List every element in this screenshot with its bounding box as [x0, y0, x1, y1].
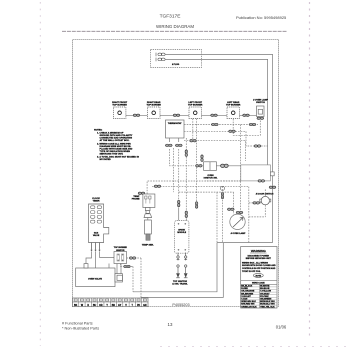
bus y192.1 — [179, 191, 234, 193]
bus y181 to probe — [147, 181, 241, 194]
svg-text:LEFT REAR: LEFT REAR — [227, 101, 240, 104]
oven lamp switch box — [257, 106, 265, 117]
connector on control bottom wire — [258, 180, 265, 183]
svg-text:AT THE WALL OUTLET BOX.: AT THE WALL OUTLET BOX. — [100, 139, 130, 142]
svg-text:TIMER: TIMER — [93, 201, 100, 203]
upper dashed bus y126 — [184, 124, 258, 126]
connector y150.5 — [254, 145, 261, 148]
svg-text:Y/BK-YEL BLK: Y/BK-YEL BLK — [260, 306, 275, 308]
svg-text:CONTROLS IN OFF POSITION A: CONTROLS IN OFF POSITION AND — [242, 267, 276, 270]
power cord wire N — [165, 59, 268, 170]
connector left of door switch — [253, 202, 260, 205]
svg-text:P4055203: P4055203 — [172, 303, 189, 307]
svg-text:TOP BURNER: TOP BURNER — [147, 104, 162, 106]
valve pins up — [108, 264, 110, 269]
svg-text:OVEN VALVE: OVEN VALVE — [88, 277, 102, 280]
wire oven lamp feed vertical — [236, 211, 243, 214]
oven valve box — [76, 268, 115, 287]
connector on mid bus left — [154, 185, 161, 188]
connector right of ignitor — [129, 257, 136, 260]
wire box3 long down — [196, 119, 198, 208]
power cord plug symbol line 2 — [156, 58, 165, 62]
oven lamp circle — [230, 214, 245, 229]
wire with connector C — [185, 138, 187, 210]
connector D — [189, 139, 196, 142]
svg-text:VALVE: VALVE — [93, 234, 100, 237]
probe flare bracket — [144, 214, 152, 218]
svg-text:# DOOR SWITCH: # DOOR SWITCH — [256, 193, 274, 195]
main diagram border — [73, 40, 279, 307]
svg-text:SPARK: SPARK — [178, 229, 185, 232]
power cord wire L1 — [165, 54, 273, 242]
wire control to door sw area — [249, 202, 261, 204]
connector above ignitor switch — [201, 155, 204, 162]
warning and wire code table — [241, 247, 277, 309]
svg-text:NOTE: NOTE — [256, 275, 262, 277]
clock slots — [91, 206, 102, 223]
power cord box — [151, 50, 202, 68]
wire thermostat aux down — [173, 148, 175, 192]
svg-text:13: 13 — [168, 322, 173, 327]
oven control tab — [270, 172, 274, 176]
svg-text:SWITCH: SWITCH — [256, 102, 265, 104]
connector C — [185, 150, 188, 157]
svg-text:SERVICING THIS UNIT.: SERVICING THIS UNIT. — [100, 153, 124, 155]
wire thermostat to spark module — [178, 149, 180, 200]
NOTES text block — [94, 129, 140, 161]
svg-text:BK-BLACK: BK-BLACK — [241, 285, 252, 288]
svg-text:# OVEN LAMP: # OVEN LAMP — [253, 99, 268, 102]
wire into ignitor switch top — [201, 155, 203, 162]
connector 3 — [210, 114, 217, 117]
temp probe receptacle — [143, 194, 155, 208]
oven lamp leads — [233, 192, 235, 214]
connector on bus y126 left — [211, 123, 218, 126]
connector below ignitor — [123, 265, 130, 268]
svg-text:TOP BURNER: TOP BURNER — [226, 104, 241, 106]
svg-text:01/06: 01/06 — [276, 325, 287, 330]
clock body — [89, 204, 109, 243]
svg-text:SHOWN WITH DOOR CLOSED AND: SHOWN WITH DOOR CLOSED AND — [242, 264, 276, 267]
svg-text:T-TAN: T-TAN — [241, 298, 247, 301]
burner switch box 4 — [227, 107, 240, 119]
svg-text:& IGN. TRANS.: & IGN. TRANS. — [172, 282, 188, 285]
wire ignitor switch to control — [216, 165, 240, 167]
svg-text:BR: BR — [112, 305, 116, 307]
svg-text:GY-GRAY: GY-GRAY — [260, 292, 270, 295]
svg-text:TOP BURNER: TOP BURNER — [112, 104, 127, 106]
title underline dashed — [62, 30, 287, 32]
bus y140.7 — [184, 141, 246, 161]
connector at probe receptacle top — [138, 192, 145, 195]
wire control box bottom — [205, 180, 241, 182]
connector on bus y131.3 — [228, 130, 235, 133]
wire door switch top — [264, 189, 266, 196]
svg-text:RIGHT REAR: RIGHT REAR — [147, 101, 161, 104]
terminal strip — [73, 298, 149, 307]
connector on wire x196 — [195, 201, 198, 208]
svg-text:PK: PK — [137, 305, 141, 307]
svg-text:TGF317E: TGF317E — [160, 14, 181, 20]
bottom page artifact dashes — [160, 346, 350, 348]
oven valve tab — [115, 274, 122, 282]
wire to ignitor switch — [170, 149, 194, 166]
svg-text:THERMOSTAT: THERMOSTAT — [168, 122, 182, 125]
svg-text:BK: BK — [74, 305, 78, 307]
electrode terminals below module — [177, 253, 188, 261]
connector right of ignitor switch (dark) — [221, 164, 229, 167]
thermostat connector B — [175, 144, 182, 147]
wire box4-lamp switch — [240, 114, 257, 116]
wire lamp right — [249, 216, 265, 218]
connector on bus y126 right — [249, 123, 256, 126]
svg-text:GY: GY — [118, 305, 122, 307]
mid bus y185.4 — [152, 186, 249, 242]
connector 2 — [173, 114, 180, 117]
svg-text:MODULE: MODULE — [177, 232, 186, 234]
right lower wire corners — [217, 242, 273, 244]
svg-text:IGNITOR SW.: IGNITOR SW. — [204, 178, 218, 180]
connector left of ignitor switch — [195, 165, 202, 168]
page edge dashed vertical line right — [309, 2, 311, 340]
wire x217 down — [216, 192, 218, 243]
svg-text:Publication No: 5995498925: Publication No: 5995498925 — [236, 15, 287, 20]
dashed bus y131.3 — [184, 131, 268, 146]
thermostat connector A — [165, 144, 172, 147]
connector below receptacle — [145, 208, 150, 211]
spark electrode right — [184, 265, 188, 278]
clock pins — [92, 243, 100, 251]
wire to bottom loop left — [132, 267, 134, 292]
wire box2-box3 — [160, 114, 189, 116]
svg-text:BU: BU — [93, 305, 97, 307]
wire door switch down — [264, 205, 266, 217]
power cord plug symbol line 1 — [156, 53, 165, 57]
svg-text:OR: OR — [99, 305, 103, 307]
door switch circle — [261, 196, 269, 204]
svg-text:PROBE: PROBE — [132, 199, 140, 201]
spark electrode left — [176, 265, 180, 278]
svg-text:OR/BK-OR BLK: OR/BK-OR BLK — [241, 306, 257, 308]
svg-text:WARNING: WARNING — [251, 249, 267, 253]
connector 4 — [242, 114, 249, 117]
oven control box — [241, 165, 271, 181]
spark module box — [175, 221, 189, 254]
temp sensor body — [144, 220, 151, 234]
clock pin wires — [86, 252, 92, 264]
burner switch box 2 — [148, 107, 161, 119]
top burner ignitor box — [114, 252, 127, 264]
connector on power wire y187 — [269, 186, 276, 189]
burner switch labels row — [112, 99, 268, 107]
svg-text:WIRING BOX - ALL WIRING: WIRING BOX - ALL WIRING — [242, 261, 268, 264]
svg-text:NOTES:: NOTES: — [94, 129, 103, 131]
wire down to bottom loop — [140, 258, 142, 297]
svg-text:OR-ORANGE: OR-ORANGE — [241, 290, 255, 293]
svg-text:GN: GN — [143, 305, 147, 307]
svg-text:# OVEN LAMP: # OVEN LAMP — [231, 232, 246, 235]
thermostat box — [166, 120, 185, 138]
wire box3 down — [192, 119, 194, 141]
burner switch box 3 — [189, 107, 202, 119]
wire junction down — [222, 186, 224, 242]
burner switch box 1 — [113, 107, 126, 119]
svg-text:TSTAT IN OFF POS.: TSTAT IN OFF POS. — [242, 270, 261, 273]
svg-text:TOP BURNER: TOP BURNER — [188, 104, 203, 106]
svg-text:* Non-Illustrated Parts: * Non-Illustrated Parts — [62, 327, 99, 331]
probe neck — [147, 218, 149, 221]
svg-text:TEMP SEN.: TEMP SEN. — [142, 244, 154, 246]
thermostat pin wires down — [169, 138, 171, 142]
junction circle — [221, 186, 225, 190]
svg-text:# Functional Parts: # Functional Parts — [62, 322, 93, 326]
wire box3-box4 — [202, 114, 228, 116]
svg-text:BEFORE SERVICING UNIT: BEFORE SERVICING UNIT — [246, 258, 272, 260]
svg-text:WIRING DIAGRAM: WIRING DIAGRAM — [156, 24, 194, 29]
svg-text:# PLUG: # PLUG — [172, 64, 180, 66]
sensor tip hatched — [146, 234, 150, 240]
svg-text:MV RATED: MV RATED — [100, 158, 112, 161]
connector below lamp switch — [257, 117, 264, 120]
connector 1 — [133, 114, 140, 117]
spark module wires top connectors — [177, 200, 180, 207]
wire clock middle pin to valve — [95, 252, 97, 268]
wire box1-box2 — [126, 114, 148, 116]
wire lamp switch down — [233, 119, 260, 136]
